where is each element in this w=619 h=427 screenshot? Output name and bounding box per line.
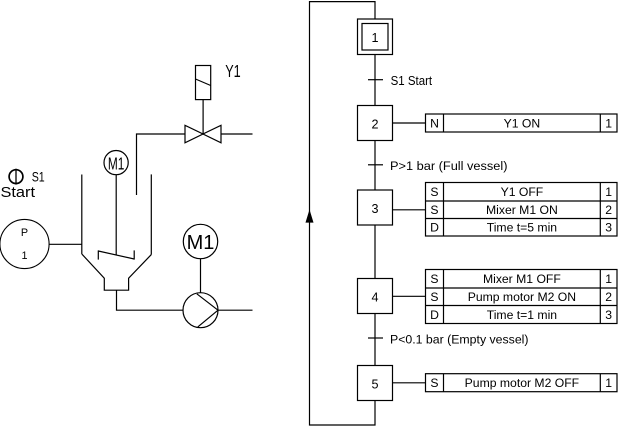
svg-text:1: 1: [605, 376, 612, 390]
svg-text:M1: M1: [187, 232, 215, 254]
svg-text:4: 4: [371, 291, 378, 305]
action block step4: [426, 270, 618, 324]
action block step2: [426, 114, 618, 132]
pressure sensor P1: [0, 219, 49, 268]
svg-text:1: 1: [605, 185, 612, 199]
svg-text:P: P: [21, 227, 28, 239]
wire step5 action: [393, 382, 426, 384]
valve body: [185, 125, 221, 143]
wire motor to pump: [200, 259, 202, 293]
svg-text:Time t=5 min: Time t=5 min: [487, 221, 557, 235]
svg-text:S: S: [430, 203, 438, 217]
svg-text:1: 1: [605, 272, 612, 286]
svg-text:P<0.1 bar (Empty vessel): P<0.1 bar (Empty vessel): [390, 333, 529, 347]
valve stem: [202, 100, 204, 134]
wire step3 action: [393, 209, 426, 211]
svg-text:Start: Start: [1, 185, 36, 201]
svg-text:2: 2: [371, 118, 378, 132]
svg-text:S1 Start: S1 Start: [391, 74, 433, 88]
action block step5: [426, 374, 618, 392]
svg-text:D: D: [430, 308, 439, 322]
arrowhead: [306, 212, 312, 223]
svg-text:1: 1: [371, 31, 378, 45]
step 2: [358, 106, 393, 141]
svg-text:3: 3: [605, 221, 612, 235]
svg-text:D: D: [430, 221, 439, 235]
svg-text:S: S: [430, 185, 438, 199]
mixer motor M1: [104, 151, 128, 175]
svg-text:Y1: Y1: [225, 61, 241, 81]
tank right wall: [150, 174, 152, 254]
svg-text:S: S: [430, 290, 438, 304]
svg-text:P>1 bar (Full vessel): P>1 bar (Full vessel): [390, 159, 508, 173]
wire step2 action: [393, 122, 426, 124]
wire step3-step4: [374, 225, 376, 279]
transition t2: [368, 164, 383, 166]
wire P1 to tank: [49, 243, 82, 245]
svg-text:S: S: [430, 272, 438, 286]
svg-text:1: 1: [605, 116, 612, 130]
solenoid coil Y1: [196, 66, 211, 100]
step 5: [358, 366, 393, 401]
svg-text:S: S: [430, 376, 438, 390]
step 3: [358, 190, 393, 225]
svg-text:1: 1: [21, 250, 27, 262]
pipe valve outlet right: [221, 133, 253, 135]
svg-text:3: 3: [605, 308, 612, 322]
pipe tank outlet: [117, 290, 184, 310]
svg-text:S1: S1: [32, 168, 45, 184]
pump motor M1: [183, 224, 217, 258]
transition t1: [368, 79, 383, 81]
svg-text:Mixer M1 ON: Mixer M1 ON: [486, 203, 558, 217]
transition t3: [368, 337, 383, 339]
tank funnel bottom: [82, 254, 152, 290]
wire step2-t2: [374, 141, 376, 191]
svg-text:2: 2: [605, 203, 612, 217]
svg-text:Mixer M1 OFF: Mixer M1 OFF: [483, 272, 561, 286]
pump: [183, 293, 218, 328]
svg-text:Pump motor M2 OFF: Pump motor M2 OFF: [465, 376, 579, 390]
svg-text:Time t=1 min: Time t=1 min: [487, 308, 557, 322]
wire step4 action: [393, 295, 426, 297]
action block step3: [426, 183, 618, 237]
wire step4-t3: [374, 314, 376, 366]
svg-text:2: 2: [605, 290, 612, 304]
svg-text:Pump motor M2 ON: Pump motor M2 ON: [468, 290, 576, 304]
svg-text:N: N: [430, 116, 439, 130]
svg-text:Y1 ON: Y1 ON: [504, 116, 541, 130]
tank left wall: [81, 175, 83, 255]
impeller: [98, 250, 134, 259]
step 1 (initial): [358, 19, 393, 55]
pipe valve to tank: [137, 134, 186, 195]
svg-text:5: 5: [371, 378, 378, 392]
pipe pump outlet: [218, 309, 253, 311]
step 4: [358, 279, 393, 314]
mixer shaft: [115, 175, 117, 255]
svg-text:Y1 OFF: Y1 OFF: [501, 185, 544, 199]
svg-text:M1: M1: [108, 153, 125, 173]
pushbutton S1: [9, 169, 23, 185]
wire step1-t1: [374, 55, 376, 106]
svg-text:3: 3: [371, 202, 378, 216]
feedback loop wire: [310, 2, 376, 425]
